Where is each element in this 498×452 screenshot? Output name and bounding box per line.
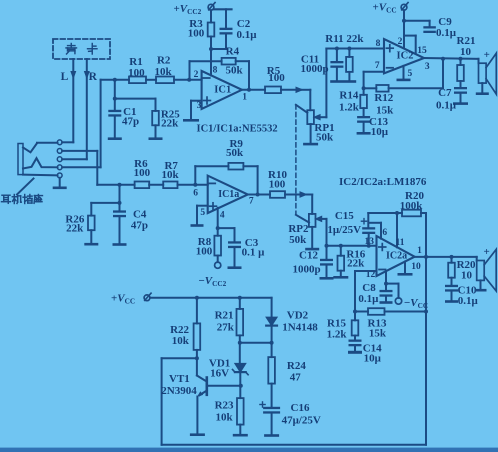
svg-text:16V: 16V [210, 368, 229, 380]
svg-text:1: 1 [242, 92, 247, 102]
svg-text:10μ: 10μ [371, 126, 389, 138]
svg-text:10k: 10k [216, 412, 234, 424]
svg-text:1000p: 1000p [301, 63, 329, 75]
svg-text:10k: 10k [161, 169, 179, 181]
svg-text:0.1 μ: 0.1 μ [242, 246, 266, 258]
svg-text:R: R [89, 71, 98, 83]
svg-text:10: 10 [460, 46, 472, 58]
svg-text:50k: 50k [226, 147, 244, 159]
svg-text:IC2: IC2 [397, 51, 414, 62]
svg-text:27k: 27k [217, 322, 235, 334]
svg-text:100: 100 [134, 167, 151, 179]
svg-text:22k: 22k [347, 258, 365, 270]
svg-text:22k: 22k [161, 118, 179, 130]
svg-text:22k: 22k [66, 223, 84, 235]
svg-text:0.1μ: 0.1μ [436, 27, 457, 39]
svg-text:100: 100 [269, 178, 286, 190]
svg-text:6: 6 [382, 228, 387, 238]
svg-text:0.1μ: 0.1μ [358, 293, 379, 305]
svg-text:IC1/IC1a:NE5532: IC1/IC1a:NE5532 [197, 124, 278, 135]
svg-text:R2: R2 [157, 55, 171, 67]
svg-text:C12: C12 [299, 250, 318, 262]
svg-text:0.1μ: 0.1μ [458, 295, 479, 307]
svg-text:2: 2 [194, 70, 199, 80]
svg-text:1: 1 [417, 246, 422, 256]
svg-text:IC2/IC2a:LM1876: IC2/IC2a:LM1876 [339, 176, 427, 188]
svg-text:VD2: VD2 [287, 310, 309, 322]
svg-text:IC2a: IC2a [386, 251, 407, 262]
svg-text:15k: 15k [376, 104, 394, 116]
svg-text:10k: 10k [154, 66, 172, 78]
svg-text:50k: 50k [316, 131, 334, 143]
svg-text:100: 100 [196, 245, 213, 257]
svg-text:C15: C15 [335, 210, 354, 222]
svg-text:C8: C8 [362, 282, 376, 294]
svg-text:+: + [484, 49, 490, 61]
svg-text:50k: 50k [289, 234, 307, 246]
svg-text:10μ: 10μ [364, 353, 382, 365]
svg-text:2: 2 [398, 37, 403, 47]
svg-text:C7: C7 [438, 87, 452, 99]
svg-text:47p: 47p [122, 116, 139, 128]
svg-text:R23: R23 [215, 400, 234, 412]
svg-text:0.1μ: 0.1μ [436, 100, 457, 112]
svg-text:L: L [61, 71, 69, 83]
svg-text:5: 5 [408, 69, 413, 79]
svg-text:1.2k: 1.2k [339, 102, 360, 114]
svg-text:13: 13 [364, 237, 374, 247]
svg-text:10: 10 [411, 262, 421, 272]
svg-text:7: 7 [249, 196, 254, 206]
svg-text:7: 7 [375, 61, 380, 71]
svg-text:1000p: 1000p [292, 264, 320, 276]
svg-text:10: 10 [461, 270, 473, 282]
svg-text:15k: 15k [369, 327, 387, 339]
svg-text:8: 8 [376, 39, 381, 49]
svg-text:0.1μ: 0.1μ [237, 29, 258, 41]
svg-text:5: 5 [200, 208, 205, 218]
svg-text:50k: 50k [225, 65, 243, 77]
svg-text:3: 3 [425, 62, 430, 72]
svg-text:R21: R21 [215, 310, 234, 322]
svg-text:+: + [483, 246, 489, 258]
svg-text:47p: 47p [131, 219, 148, 231]
svg-text:100k: 100k [400, 200, 424, 212]
svg-text:3: 3 [197, 101, 202, 111]
svg-text:R11 22k: R11 22k [325, 33, 364, 45]
svg-text:R1: R1 [129, 56, 142, 68]
svg-text:10k: 10k [172, 335, 190, 347]
svg-text:1.2k: 1.2k [327, 329, 348, 341]
svg-text:C16: C16 [291, 402, 310, 414]
svg-text:8: 8 [213, 66, 218, 76]
svg-text:R12: R12 [374, 92, 393, 104]
svg-text:VT1: VT1 [169, 373, 190, 385]
svg-text:6: 6 [193, 188, 198, 198]
svg-text:4: 4 [220, 211, 225, 221]
svg-text:100: 100 [128, 67, 145, 79]
svg-text:100: 100 [188, 27, 205, 39]
svg-text:2N3904: 2N3904 [161, 385, 197, 397]
svg-text:R4: R4 [226, 46, 240, 58]
svg-text:R14: R14 [339, 89, 358, 101]
svg-text:47μ/25V: 47μ/25V [282, 415, 321, 427]
svg-text:IC1a: IC1a [218, 189, 239, 200]
svg-text:IC1: IC1 [214, 84, 231, 95]
svg-text:47: 47 [290, 371, 302, 383]
svg-text:15: 15 [417, 46, 427, 56]
svg-text:100: 100 [268, 72, 285, 84]
svg-text:1μ/25V: 1μ/25V [327, 224, 361, 236]
svg-text:1N4148: 1N4148 [282, 322, 318, 334]
